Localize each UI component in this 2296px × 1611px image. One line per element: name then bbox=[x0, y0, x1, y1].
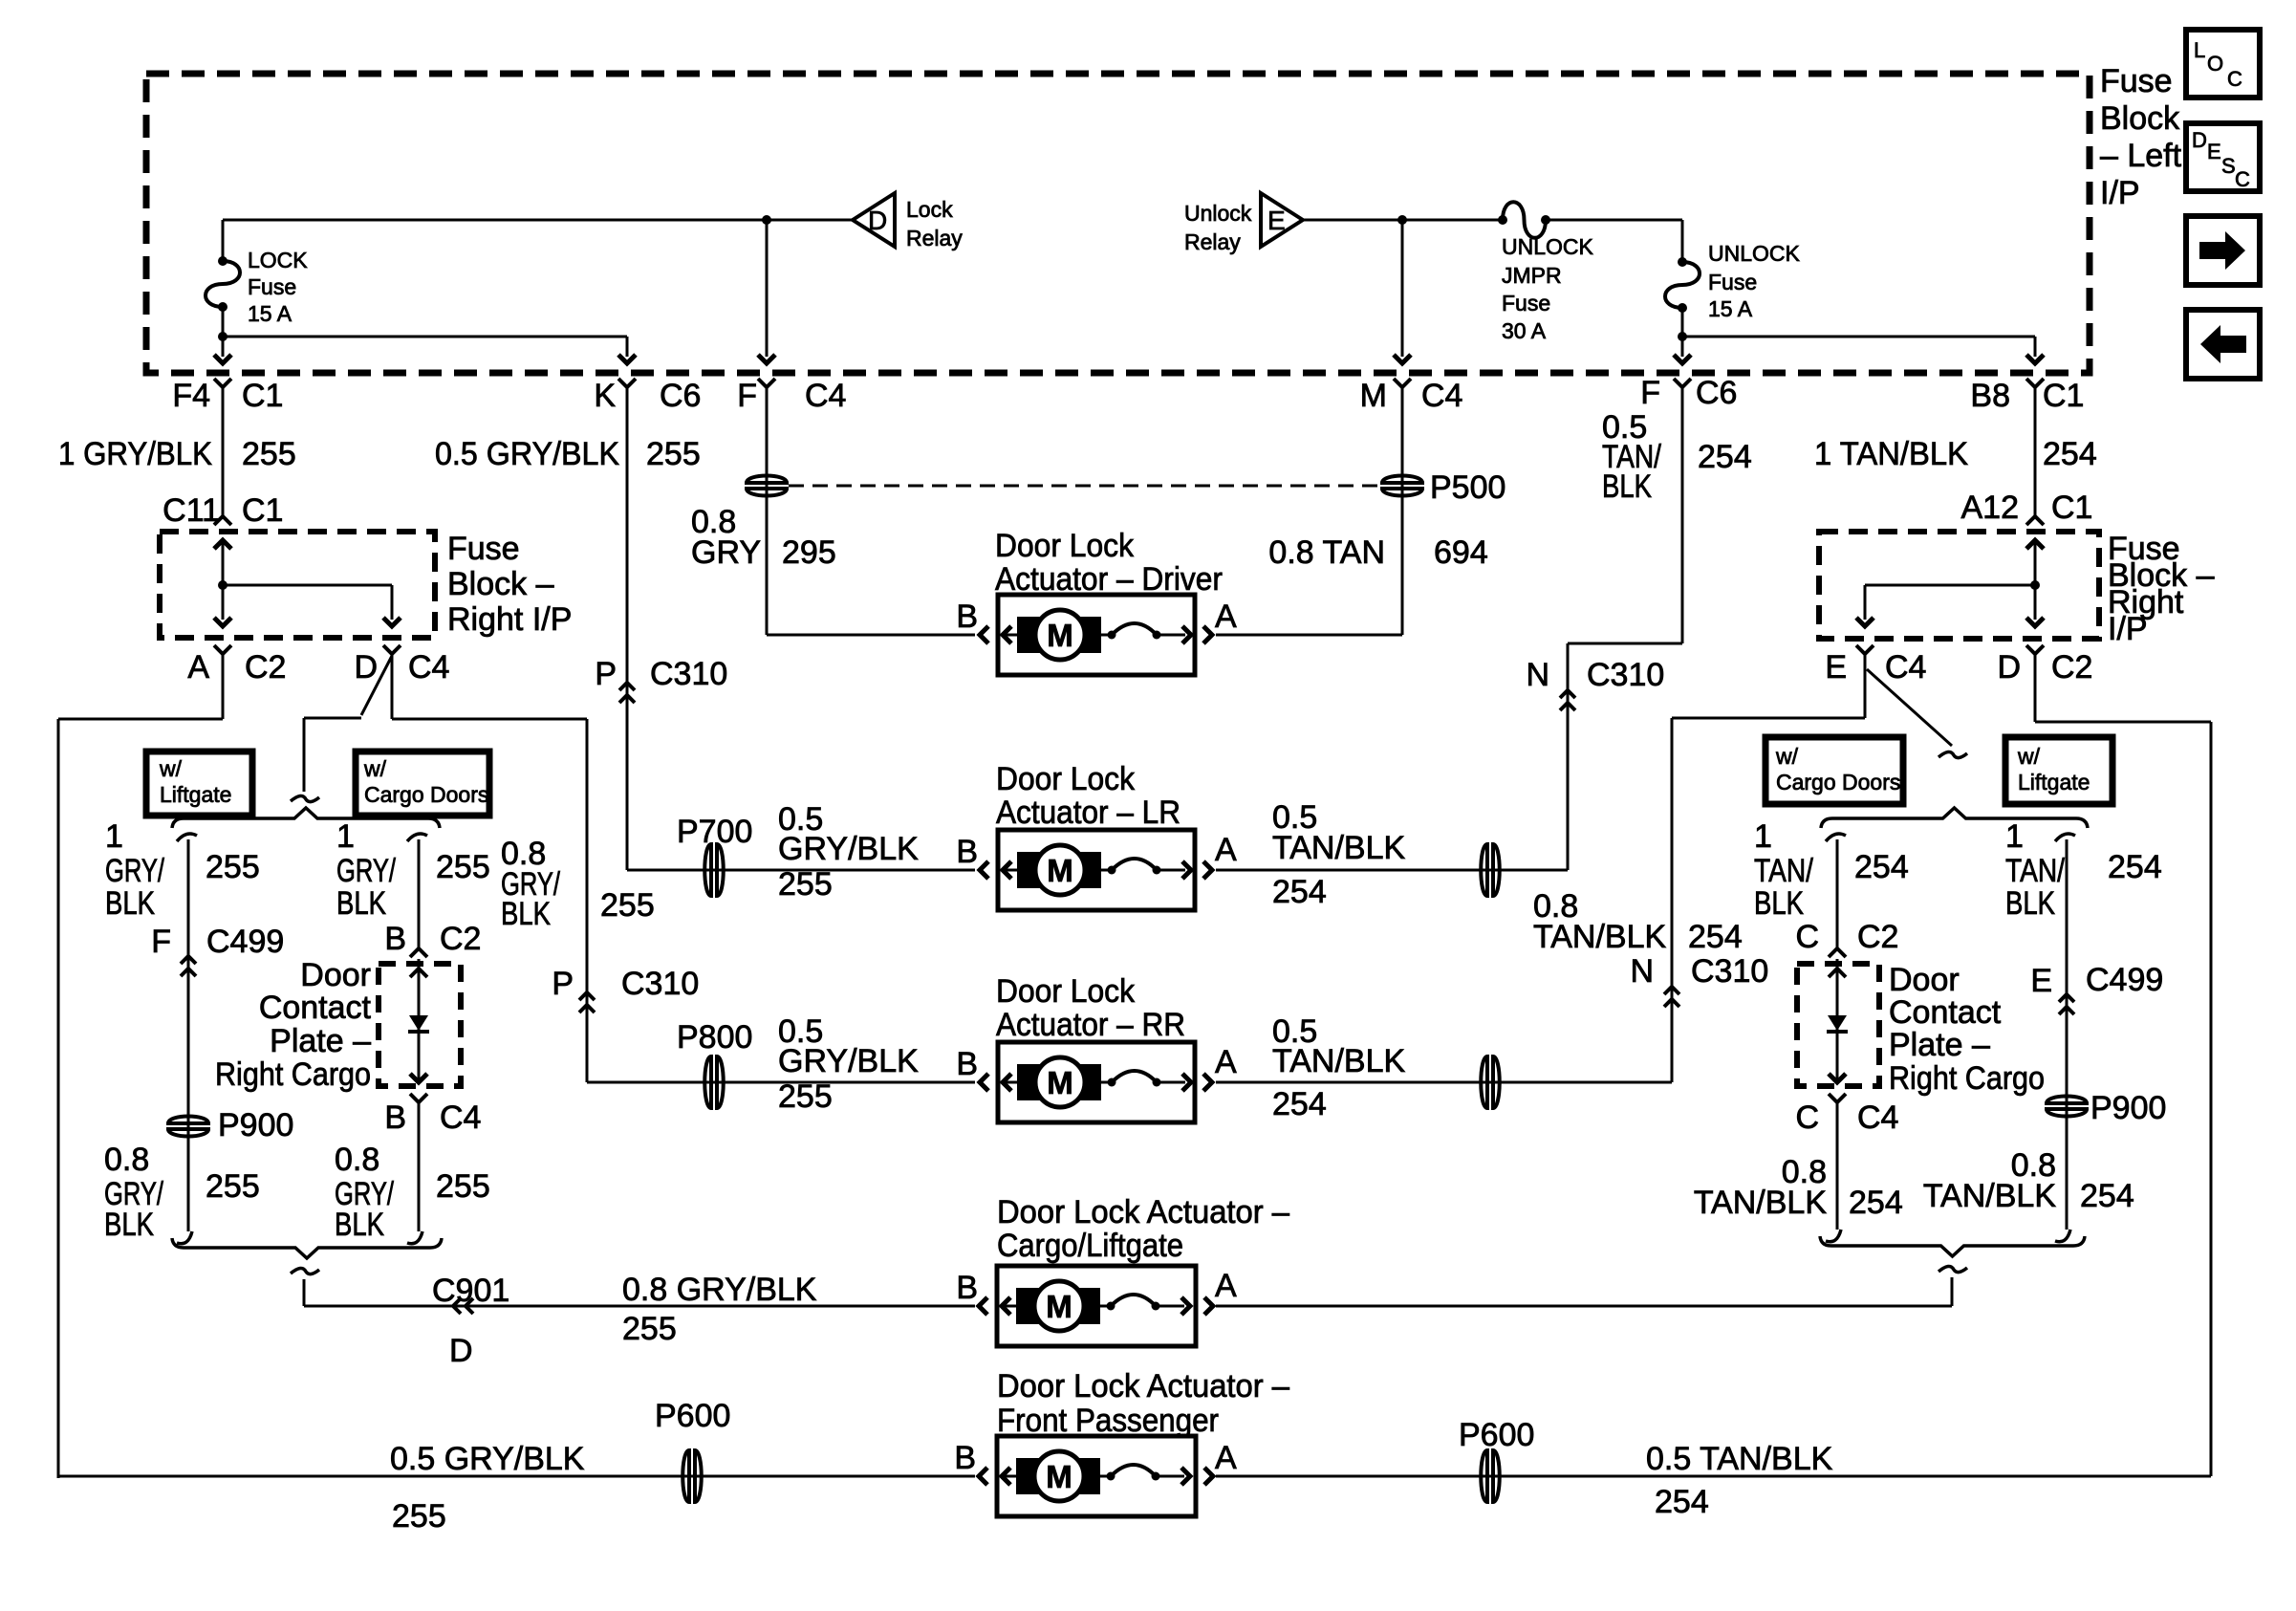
svg-text:Door: Door bbox=[1889, 962, 1960, 998]
svg-text:C310: C310 bbox=[1691, 953, 1768, 990]
svg-text:C2: C2 bbox=[2051, 649, 2092, 686]
svg-text:Door Lock: Door Lock bbox=[995, 528, 1135, 564]
svg-text:JMPR: JMPR bbox=[1502, 263, 1562, 288]
svg-text:295: 295 bbox=[782, 534, 836, 571]
svg-text:– Left: – Left bbox=[2100, 138, 2182, 174]
svg-text:Door Lock: Door Lock bbox=[996, 761, 1136, 797]
svg-text:Fuse: Fuse bbox=[2100, 63, 2173, 99]
svg-text:w/: w/ bbox=[363, 756, 387, 781]
wire label 0.8 GRY/BLK 255 c901 bbox=[622, 1272, 817, 1347]
cargo pin A bbox=[1215, 1268, 1237, 1304]
driver pin B bbox=[956, 599, 978, 635]
svg-text:A: A bbox=[1215, 1268, 1237, 1304]
wire label 1 TAN/BLK 254 cargo right bbox=[1754, 818, 1909, 922]
svg-text:C1: C1 bbox=[242, 492, 283, 529]
wire M to driver A bbox=[1216, 387, 1402, 635]
svg-text:A12: A12 bbox=[1961, 490, 2020, 526]
option brace right lower bbox=[1820, 1236, 2085, 1256]
svg-text:I/P: I/P bbox=[2108, 611, 2148, 647]
connector E C4 bbox=[1825, 645, 1926, 686]
wire label 0.8 GRY/BLK 255 liftgate bbox=[104, 1142, 260, 1243]
svg-text:D: D bbox=[449, 1333, 473, 1369]
grommet P500 left bbox=[745, 476, 789, 496]
DESC icon box bbox=[2186, 123, 2260, 191]
svg-text:255: 255 bbox=[778, 1078, 833, 1115]
left block entry arrow bbox=[214, 540, 231, 590]
svg-text:254: 254 bbox=[2043, 436, 2097, 472]
svg-text:15 A: 15 A bbox=[1708, 296, 1753, 321]
wire F right drop bbox=[1674, 337, 1691, 363]
svg-text:1 TAN/BLK: 1 TAN/BLK bbox=[1814, 436, 1968, 472]
svg-text:255: 255 bbox=[436, 1168, 490, 1205]
svg-text:A: A bbox=[187, 649, 209, 686]
svg-text:BLK: BLK bbox=[1754, 885, 1804, 922]
w/ Liftgate option box right bbox=[2005, 737, 2112, 804]
w/ Cargo Doors option box right bbox=[1765, 737, 1903, 804]
svg-text:M: M bbox=[1047, 853, 1073, 888]
door contact plate right internal wire bbox=[1827, 959, 1848, 1082]
connector C C2 right bbox=[1795, 919, 1898, 957]
option squiggle right bbox=[1939, 751, 1967, 757]
door lock actuator - driver bbox=[980, 595, 1212, 675]
svg-text:255: 255 bbox=[778, 866, 833, 903]
svg-text:B: B bbox=[956, 1046, 978, 1082]
wire unlock branch to B8 bbox=[1682, 336, 2035, 338]
svg-text:E: E bbox=[2207, 140, 2221, 163]
grommet P900 left bbox=[166, 1107, 293, 1143]
svg-text:Fuse: Fuse bbox=[1708, 270, 1757, 294]
svg-text:C6: C6 bbox=[660, 378, 701, 414]
w/ Liftgate option box left bbox=[146, 751, 252, 816]
door lock actuator - front passenger bbox=[979, 1436, 1213, 1516]
svg-text:B: B bbox=[956, 599, 978, 635]
wire D to RR B bbox=[587, 719, 975, 1082]
svg-text:255: 255 bbox=[622, 1311, 677, 1347]
LOC icon box bbox=[2186, 30, 2260, 98]
svg-text:B: B bbox=[956, 1270, 978, 1306]
svg-text:C: C bbox=[1795, 1099, 1819, 1136]
door lock actuator - LR title bbox=[996, 761, 1180, 831]
svg-text:255: 255 bbox=[646, 436, 701, 472]
svg-text:Right Cargo: Right Cargo bbox=[215, 1056, 371, 1093]
svg-text:C: C bbox=[2235, 167, 2250, 191]
svg-text:BLK: BLK bbox=[335, 1207, 384, 1243]
wire A to left rail bbox=[58, 653, 223, 719]
lock relay triangle D bbox=[853, 193, 895, 247]
svg-text:15 A: 15 A bbox=[248, 301, 292, 326]
svg-text:Door Lock: Door Lock bbox=[996, 973, 1136, 1010]
svg-text:C1: C1 bbox=[242, 378, 283, 414]
svg-text:254: 254 bbox=[2108, 849, 2162, 885]
svg-text:254: 254 bbox=[1272, 874, 1327, 910]
svg-text:C: C bbox=[2227, 67, 2242, 91]
cargo pin B bbox=[956, 1270, 978, 1306]
wire label 0.8 TAN/BLK 254 cargo right bbox=[1694, 1154, 1903, 1221]
wire label 0.5 GRY/BLK 255 FP bbox=[390, 1441, 585, 1535]
svg-text:0.8 TAN: 0.8 TAN bbox=[1268, 534, 1385, 571]
svg-text:GRY/BLK: GRY/BLK bbox=[778, 1043, 919, 1079]
svg-text:C1: C1 bbox=[2051, 490, 2092, 526]
svg-text:UNLOCK: UNLOCK bbox=[1708, 241, 1801, 266]
liftgate option wire upper bbox=[187, 839, 190, 1231]
svg-text:C1: C1 bbox=[2043, 378, 2084, 414]
fuse block - left I/P label bbox=[2100, 63, 2182, 211]
w/ Cargo Doors option box left bbox=[356, 751, 489, 816]
wire label 1 GRY/BLK 255 cargo bbox=[336, 818, 490, 922]
wire C901 drop bbox=[303, 1279, 306, 1306]
svg-text:F: F bbox=[1640, 375, 1660, 411]
grommet P700 left bbox=[677, 814, 752, 897]
liftgate option wire lower bbox=[0, 0, 1, 1]
svg-text:P: P bbox=[552, 966, 574, 1002]
svg-text:w/: w/ bbox=[2017, 744, 2041, 769]
svg-text:254: 254 bbox=[1655, 1484, 1709, 1520]
svg-text:GRY: GRY bbox=[691, 534, 761, 571]
wire label 0.5 TAN/BLK 254 FP bbox=[1646, 1441, 1833, 1520]
svg-text:254: 254 bbox=[1688, 919, 1743, 955]
wire label 0.8 GRY/BLK 255 mid bbox=[501, 836, 655, 932]
svg-text:1: 1 bbox=[2005, 818, 2024, 855]
LOCK fuse 15A bbox=[206, 256, 240, 312]
wire label 0.5 GRY/BLK 255 RR bbox=[778, 1013, 919, 1115]
unlock relay triangle E bbox=[1261, 193, 1303, 247]
fuse block - right I/P left dashed outline bbox=[160, 532, 435, 638]
svg-text:Cargo Doors: Cargo Doors bbox=[1776, 770, 1900, 795]
svg-text:M: M bbox=[1360, 378, 1387, 414]
wire to LOCK fuse bbox=[222, 220, 225, 261]
UNLOCK JMPR fuse label bbox=[1502, 234, 1594, 343]
svg-text:E: E bbox=[1825, 649, 1847, 686]
left block exit arrows bbox=[214, 585, 401, 626]
svg-text:C: C bbox=[1795, 919, 1819, 955]
svg-text:E: E bbox=[2030, 963, 2052, 999]
left block branch bbox=[223, 584, 392, 587]
prev-arrow icon box bbox=[2186, 310, 2260, 379]
svg-text:BLK: BLK bbox=[104, 1207, 154, 1243]
svg-text:C499: C499 bbox=[2086, 962, 2163, 998]
svg-text:C11: C11 bbox=[162, 492, 220, 529]
svg-text:A: A bbox=[1215, 832, 1237, 868]
svg-text:TAN/BLK: TAN/BLK bbox=[1533, 919, 1667, 955]
next-arrow icon box bbox=[2186, 216, 2260, 285]
svg-text:254: 254 bbox=[2080, 1178, 2134, 1214]
cargo wire curl bottom bbox=[407, 1231, 422, 1244]
liftgate option right wire bbox=[2066, 839, 2069, 1230]
svg-text:BLK: BLK bbox=[2005, 885, 2055, 922]
connector C C4 right bbox=[1795, 1094, 1898, 1136]
svg-text:A: A bbox=[1215, 1044, 1237, 1080]
wire label 0.5 GRY/BLK 255 bbox=[435, 436, 701, 472]
svg-text:Door Lock Actuator –: Door Lock Actuator – bbox=[997, 1194, 1289, 1230]
svg-text:Fuse: Fuse bbox=[1502, 291, 1550, 316]
svg-text:P600: P600 bbox=[655, 1398, 730, 1434]
connector B8 C1 bbox=[1970, 378, 2084, 414]
svg-text:D: D bbox=[868, 206, 887, 235]
wire K drop bbox=[618, 337, 636, 363]
right c901 squiggle bbox=[1939, 1266, 1967, 1272]
svg-text:0.5 GRY/BLK: 0.5 GRY/BLK bbox=[390, 1441, 585, 1477]
option squiggle left bbox=[291, 795, 319, 801]
svg-text:Unlock: Unlock bbox=[1184, 201, 1252, 226]
svg-text:GRY/: GRY/ bbox=[105, 853, 164, 889]
svg-text:255: 255 bbox=[206, 849, 260, 885]
wire label 0.8 TAN 694 bbox=[1268, 534, 1487, 571]
cargo option wire lower bbox=[418, 1102, 421, 1231]
connector F4 C1 bbox=[172, 378, 283, 414]
lock relay label bbox=[906, 197, 963, 250]
svg-text:B: B bbox=[956, 834, 978, 870]
svg-text:0.8 GRY/BLK: 0.8 GRY/BLK bbox=[622, 1272, 817, 1308]
svg-text:GRY/BLK: GRY/BLK bbox=[778, 831, 919, 867]
svg-text:C2: C2 bbox=[440, 921, 481, 957]
wire lock feed horizontal bbox=[223, 219, 853, 222]
grommet P600 left bbox=[655, 1398, 730, 1503]
svg-text:P900: P900 bbox=[218, 1107, 293, 1143]
door lock actuator - LR bbox=[980, 830, 1212, 910]
svg-text:Block –: Block – bbox=[447, 566, 554, 602]
svg-text:Door Lock Actuator –: Door Lock Actuator – bbox=[997, 1368, 1289, 1404]
door lock actuator - front passenger title bbox=[997, 1368, 1289, 1439]
connector A12 C1 bbox=[1961, 490, 2093, 526]
svg-text:P900: P900 bbox=[2090, 1090, 2166, 1126]
wire label 1 TAN/BLK 254 liftgate right bbox=[2005, 818, 2162, 922]
door lock actuator - cargo/liftgate title bbox=[997, 1194, 1289, 1264]
UNLOCK fuse label bbox=[1708, 241, 1801, 321]
svg-text:Plate –: Plate – bbox=[1889, 1027, 1990, 1063]
wire below LOCK fuse bbox=[218, 307, 227, 341]
wire E to RR A bbox=[1216, 653, 1865, 1082]
svg-text:LOCK: LOCK bbox=[248, 248, 308, 272]
svg-text:BLK: BLK bbox=[1602, 468, 1652, 505]
svg-text:254: 254 bbox=[1854, 849, 1909, 885]
UNLOCK JMPR fuse 30A bbox=[1498, 202, 1550, 238]
door contact plate left dashed box bbox=[379, 964, 461, 1086]
fuse block - right I/P left label bbox=[447, 531, 572, 638]
svg-text:TAN/: TAN/ bbox=[2005, 853, 2065, 889]
svg-text:Cargo Doors: Cargo Doors bbox=[364, 782, 488, 807]
svg-text:C4: C4 bbox=[408, 649, 449, 686]
svg-text:I/P: I/P bbox=[2100, 175, 2140, 211]
door lock actuator - cargo/liftgate bbox=[979, 1266, 1213, 1346]
connector C11 C1 bbox=[162, 492, 283, 529]
FP pin B bbox=[954, 1440, 976, 1476]
svg-text:F: F bbox=[151, 924, 171, 960]
door contact plate right label bbox=[1889, 962, 2045, 1097]
svg-text:UNLOCK: UNLOCK bbox=[1502, 234, 1594, 259]
door lock actuator - RR title bbox=[996, 973, 1185, 1043]
connector F C4 bbox=[737, 378, 846, 414]
door contact plate right dashed box bbox=[1797, 964, 1879, 1086]
junction node at lock relay wire bbox=[762, 215, 771, 225]
svg-text:w/: w/ bbox=[159, 756, 183, 781]
wire label 0.5 TAN/BLK 254 right bbox=[1602, 409, 1752, 505]
connector N C310 lower bbox=[1630, 953, 1768, 1007]
svg-text:Contact: Contact bbox=[259, 990, 372, 1026]
svg-text:F: F bbox=[737, 378, 757, 414]
connector N C310 upper bbox=[1526, 657, 1664, 710]
RR pin B bbox=[956, 1046, 978, 1082]
svg-text:TAN/BLK: TAN/BLK bbox=[1694, 1185, 1828, 1221]
wire cargo actuator A bbox=[1216, 1277, 1952, 1306]
svg-text:TAN/BLK: TAN/BLK bbox=[1923, 1178, 2057, 1214]
wire label 1 GRY/BLK 255 bbox=[58, 436, 296, 472]
svg-text:0.8: 0.8 bbox=[335, 1142, 379, 1178]
wire 0.8 GRY/BLK to cargo actuator bbox=[304, 1305, 975, 1308]
svg-text:C2: C2 bbox=[1857, 919, 1898, 955]
liftgate right wire curl bottom bbox=[2055, 1230, 2070, 1242]
svg-text:Lock: Lock bbox=[906, 197, 953, 222]
svg-text:D: D bbox=[1997, 649, 2021, 686]
svg-text:Relay: Relay bbox=[906, 226, 963, 250]
UNLOCK fuse 15A bbox=[1665, 257, 1700, 313]
svg-text:1 GRY/BLK: 1 GRY/BLK bbox=[58, 436, 212, 472]
svg-text:255: 255 bbox=[206, 1168, 260, 1205]
liftgate wire curl top bbox=[177, 834, 197, 841]
svg-text:P600: P600 bbox=[1459, 1417, 1534, 1453]
liftgate right wire curl top bbox=[2055, 834, 2075, 841]
svg-text:P700: P700 bbox=[677, 814, 752, 850]
LR pin A bbox=[1215, 832, 1237, 868]
P500 dashed link bbox=[789, 485, 1380, 488]
svg-text:P: P bbox=[595, 656, 617, 692]
wire lock branch horizontal bbox=[223, 336, 627, 338]
svg-text:C6: C6 bbox=[1696, 375, 1737, 411]
svg-text:TAN/BLK: TAN/BLK bbox=[1272, 1043, 1406, 1079]
grommet P800 left bbox=[677, 1019, 752, 1109]
connector D C4 bbox=[354, 645, 449, 686]
cargo option right wire upper bbox=[1836, 839, 1839, 948]
connector D C2 bbox=[1997, 645, 2092, 686]
svg-text:Liftgate: Liftgate bbox=[160, 782, 231, 807]
wire label 0.5 TAN/BLK 254 LR bbox=[1272, 799, 1406, 910]
svg-text:E: E bbox=[1267, 206, 1286, 235]
svg-text:30 A: 30 A bbox=[1502, 318, 1547, 343]
svg-text:Liftgate: Liftgate bbox=[2018, 770, 2090, 795]
wire unlock feed bbox=[1303, 215, 1503, 225]
c901 squiggle bbox=[291, 1268, 319, 1274]
svg-text:Right Cargo: Right Cargo bbox=[1889, 1060, 2045, 1097]
grommet P800 right bbox=[1481, 1056, 1500, 1109]
RR pin A bbox=[1215, 1044, 1237, 1080]
svg-text:C310: C310 bbox=[621, 966, 699, 1002]
wire label 0.8 TAN/BLK 254 liftgate right bbox=[1923, 1147, 2134, 1214]
wire label 1 GRY/BLK 255 liftgate bbox=[105, 818, 260, 922]
connector E C499 bbox=[2030, 962, 2163, 1014]
svg-text:Fuse: Fuse bbox=[248, 274, 296, 299]
option brace left upper bbox=[172, 808, 440, 828]
wire label 0.8 TAN/BLK 254 E bbox=[1533, 888, 1743, 955]
option brace right upper bbox=[1821, 808, 2088, 828]
grommet P900 right bbox=[2045, 1090, 2166, 1126]
svg-text:D: D bbox=[354, 649, 378, 686]
driver pin A bbox=[1215, 599, 1237, 635]
connector K C6 bbox=[594, 378, 701, 414]
door contact plate left internal wire bbox=[408, 959, 429, 1082]
connector F C6 right bbox=[1640, 375, 1737, 411]
svg-text:Fuse: Fuse bbox=[447, 531, 520, 567]
right block branch bbox=[1865, 584, 2035, 587]
cargo option right wire lower bbox=[1836, 1102, 1839, 1230]
svg-text:N: N bbox=[1526, 657, 1549, 693]
svg-text:0.8: 0.8 bbox=[104, 1142, 149, 1178]
grommet P600 right bbox=[1459, 1417, 1534, 1503]
svg-text:Actuator – Driver: Actuator – Driver bbox=[995, 561, 1223, 598]
svg-text:Right I/P: Right I/P bbox=[447, 601, 572, 638]
svg-text:C310: C310 bbox=[1587, 657, 1664, 693]
svg-text:C4: C4 bbox=[1857, 1099, 1898, 1136]
connector C901 D bbox=[432, 1273, 509, 1369]
connector B C4 left bbox=[384, 1094, 481, 1136]
svg-text:C4: C4 bbox=[440, 1099, 481, 1136]
wire D down-right bbox=[392, 653, 587, 719]
connector A C2 bbox=[187, 645, 286, 686]
svg-text:TAN/: TAN/ bbox=[1754, 853, 1813, 889]
svg-text:0.5 TAN/BLK: 0.5 TAN/BLK bbox=[1646, 1441, 1833, 1477]
svg-text:Plate –: Plate – bbox=[270, 1023, 371, 1059]
svg-text:M: M bbox=[1046, 1289, 1072, 1324]
connector M C4 bbox=[1360, 378, 1463, 414]
wire F right to LR A bbox=[1216, 387, 1682, 870]
wire below UNLOCK fuse bbox=[1678, 308, 1687, 341]
svg-text:C901: C901 bbox=[432, 1273, 509, 1309]
svg-text:Actuator – RR: Actuator – RR bbox=[996, 1007, 1185, 1043]
svg-text:BLK: BLK bbox=[105, 885, 155, 922]
grommet P700 right bbox=[1481, 843, 1500, 897]
svg-text:254: 254 bbox=[1698, 439, 1752, 475]
svg-text:C310: C310 bbox=[650, 656, 727, 692]
FP pin A bbox=[1215, 1440, 1237, 1476]
svg-text:B: B bbox=[954, 1440, 976, 1476]
wire B8 segment bbox=[2034, 387, 2037, 499]
svg-text:255: 255 bbox=[392, 1498, 446, 1535]
svg-text:1: 1 bbox=[105, 818, 123, 855]
wire D right rail bbox=[1216, 653, 2211, 1476]
svg-text:Block: Block bbox=[2100, 100, 2180, 137]
svg-text:255: 255 bbox=[242, 436, 296, 472]
svg-text:C2: C2 bbox=[245, 649, 286, 686]
svg-text:Relay: Relay bbox=[1184, 229, 1241, 254]
svg-text:N: N bbox=[1630, 953, 1654, 990]
svg-text:GRY/: GRY/ bbox=[336, 853, 396, 889]
right block entry arrow bbox=[2026, 540, 2044, 590]
svg-text:C4: C4 bbox=[805, 378, 846, 414]
svg-text:255: 255 bbox=[600, 887, 655, 924]
unlock relay label bbox=[1184, 201, 1252, 254]
wire label 0.5 TAN/BLK 254 RR bbox=[1272, 1013, 1406, 1122]
svg-text:B: B bbox=[384, 1099, 406, 1136]
wire F4 drop bbox=[214, 337, 231, 363]
svg-text:254: 254 bbox=[1849, 1185, 1903, 1221]
connector B C2 left bbox=[384, 921, 481, 957]
fuse block - right I/P right dashed outline bbox=[1819, 532, 2099, 639]
svg-text:C4: C4 bbox=[1421, 378, 1462, 414]
cargo wire curl top bbox=[407, 834, 427, 841]
svg-text:P500: P500 bbox=[1430, 469, 1505, 506]
svg-text:BLK: BLK bbox=[501, 896, 551, 932]
LOCK fuse label bbox=[248, 248, 308, 326]
right block exit arrows bbox=[1856, 585, 2044, 626]
svg-text:O: O bbox=[2207, 52, 2223, 76]
wire label 0.8 GRY/BLK 255 cargo bbox=[335, 1142, 490, 1243]
wire FP B bbox=[58, 1475, 975, 1478]
wire B8 drop bbox=[2026, 337, 2044, 363]
wire K to LR B bbox=[627, 869, 975, 872]
svg-text:D: D bbox=[2192, 128, 2207, 152]
svg-text:TAN/BLK: TAN/BLK bbox=[1272, 830, 1406, 866]
svg-text:M: M bbox=[1047, 1065, 1073, 1100]
grommet P500 right bbox=[1380, 469, 1505, 506]
wire label 1 TAN/BLK 254 bbox=[1814, 436, 2097, 472]
